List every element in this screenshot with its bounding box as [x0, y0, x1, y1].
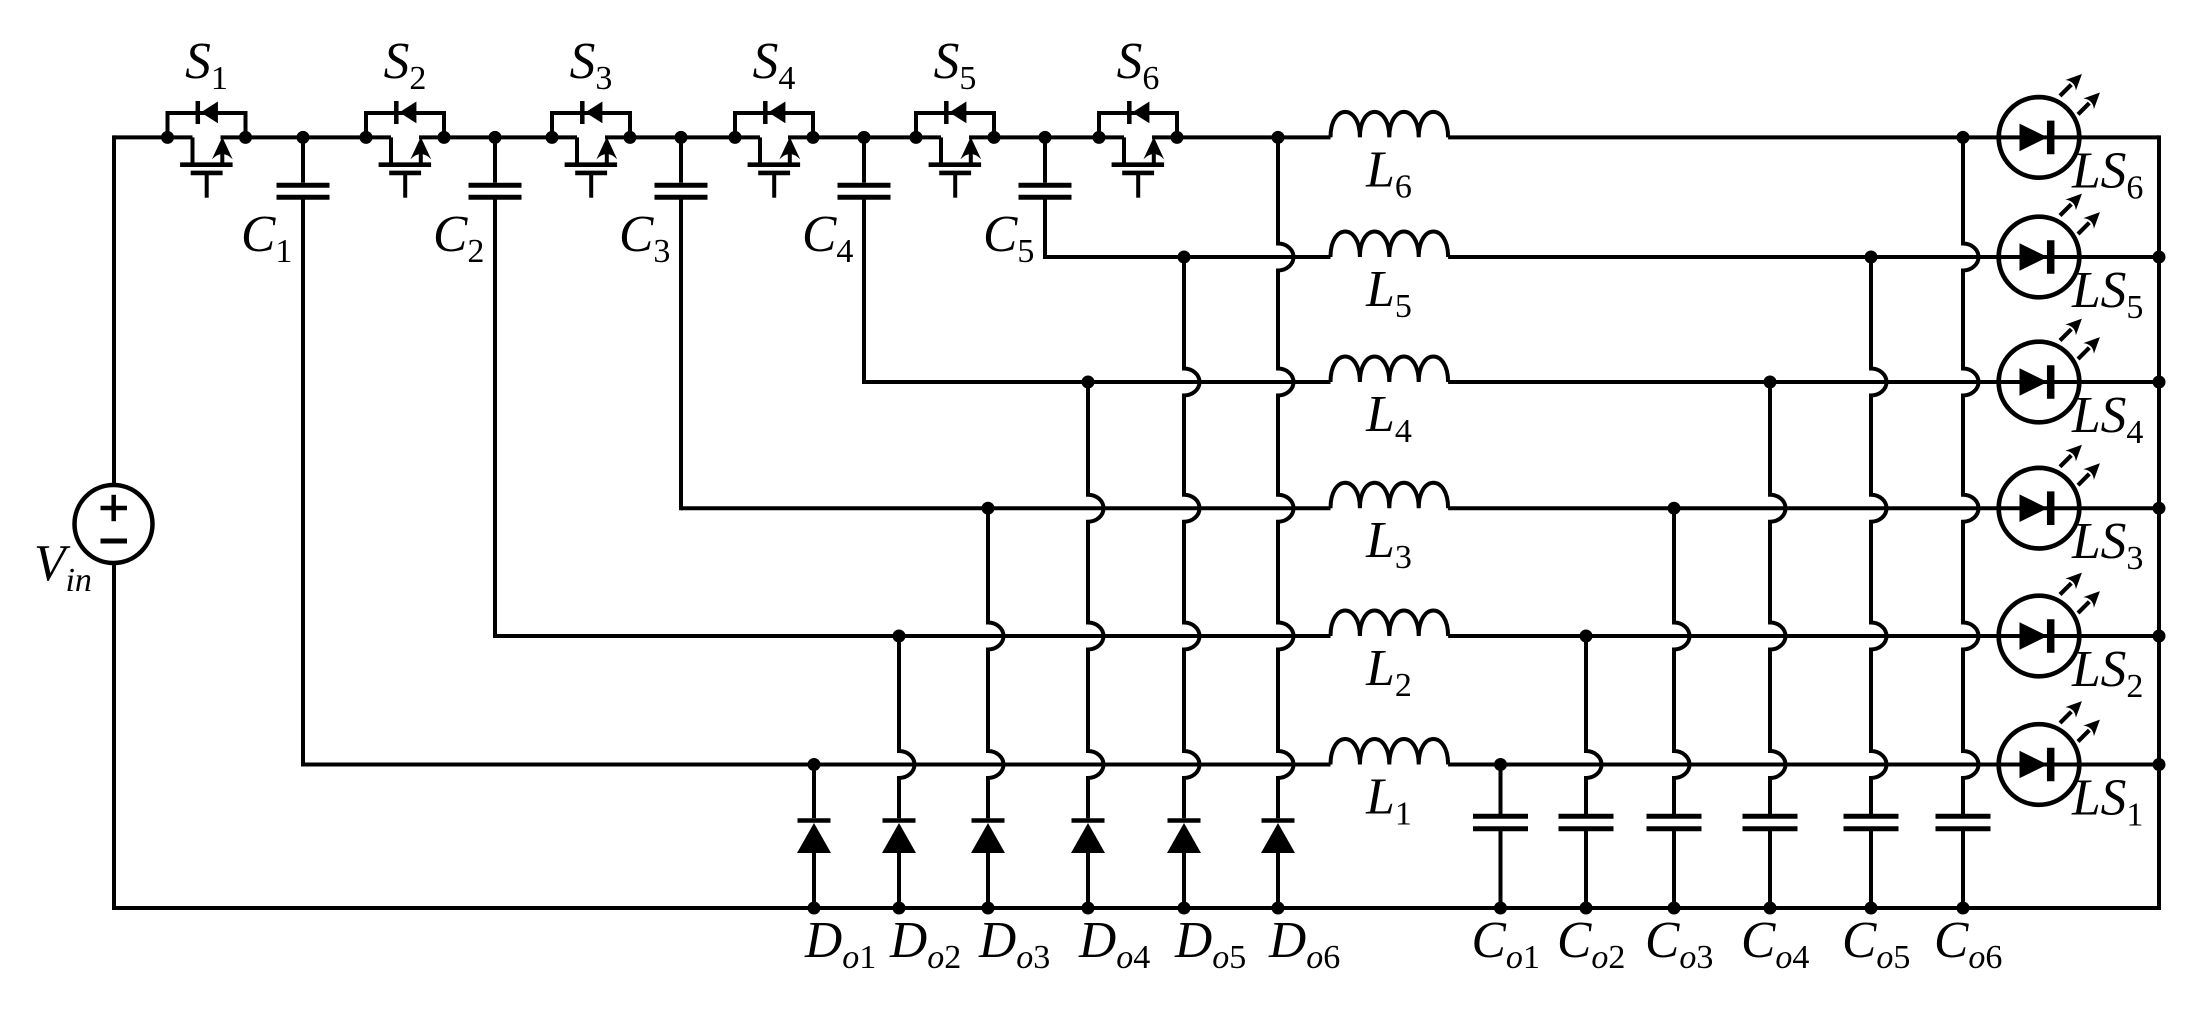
inductor L4 — [1331, 357, 2160, 451]
wire L6 row from node after S6 to LED string LS6 — [1278, 135, 1331, 139]
output capacitor Co4 — [1741, 376, 1809, 977]
switch S2 (MOSFET with body diode) — [360, 33, 451, 198]
LED string LS4 — [1999, 313, 2144, 451]
inductor L5 — [1331, 232, 2160, 326]
output capacitor Co1 — [1472, 758, 1540, 976]
capacitor C1 — [241, 131, 330, 767]
wire left rail Vin- down to bottom rail — [112, 563, 116, 911]
inductor L3 — [1331, 483, 2160, 577]
node dots on right output rail — [2153, 251, 2166, 772]
wire L5 row from C5 to LED string LS5 — [1045, 255, 1331, 259]
output capacitor Co6 — [1934, 131, 2002, 976]
inductor L1 — [1331, 739, 2160, 833]
inductor L2 — [1331, 611, 2160, 705]
LED string LS6 — [1999, 69, 2144, 207]
output capacitor Co3 — [1645, 502, 1713, 976]
inductor L6 — [1331, 112, 2160, 206]
diode Do3 — [971, 502, 1050, 976]
capacitor C5 — [983, 131, 1072, 270]
diode Do6 — [1261, 131, 1340, 976]
diode Do2 — [882, 630, 961, 977]
voltage source Vin — [34, 485, 153, 599]
wire L3 row from C3 to LED string LS3 — [681, 506, 1331, 510]
wire L1 row from C1 to LED string LS1 — [303, 763, 1331, 767]
wire L2 row from C2 to LED string LS2 — [495, 634, 1331, 638]
output capacitor Co2 — [1557, 630, 1625, 977]
switch S1 (MOSFET with body diode) — [161, 33, 252, 198]
switch S6 (MOSFET with body diode) — [1093, 33, 1184, 198]
diode Do5 — [1167, 251, 1246, 977]
output capacitor Co5 — [1842, 251, 1910, 977]
diode Do1 — [797, 758, 876, 976]
diode Do4 — [1071, 376, 1150, 977]
LED string LS3 — [1999, 439, 2144, 577]
switch S4 (MOSFET with body diode) — [729, 33, 820, 198]
capacitor C3 — [619, 131, 708, 510]
capacitor C2 — [433, 131, 522, 638]
wire left rail Vin to top rail — [112, 135, 116, 485]
capacitor C4 — [802, 131, 891, 384]
wire top rail from Vin+ through switch row — [114, 135, 1278, 139]
switch S3 (MOSFET with body diode) — [546, 33, 637, 198]
wire bottom return rail — [112, 906, 2161, 910]
LED string LS5 — [1999, 188, 2144, 326]
wire L4 row from C4 to LED string LS4 — [864, 380, 1331, 384]
switch S5 (MOSFET with body diode) — [910, 33, 1001, 198]
wire right output rail — [2157, 135, 2161, 908]
LED string LS2 — [1999, 567, 2144, 705]
LED string LS1 — [1999, 696, 2144, 834]
